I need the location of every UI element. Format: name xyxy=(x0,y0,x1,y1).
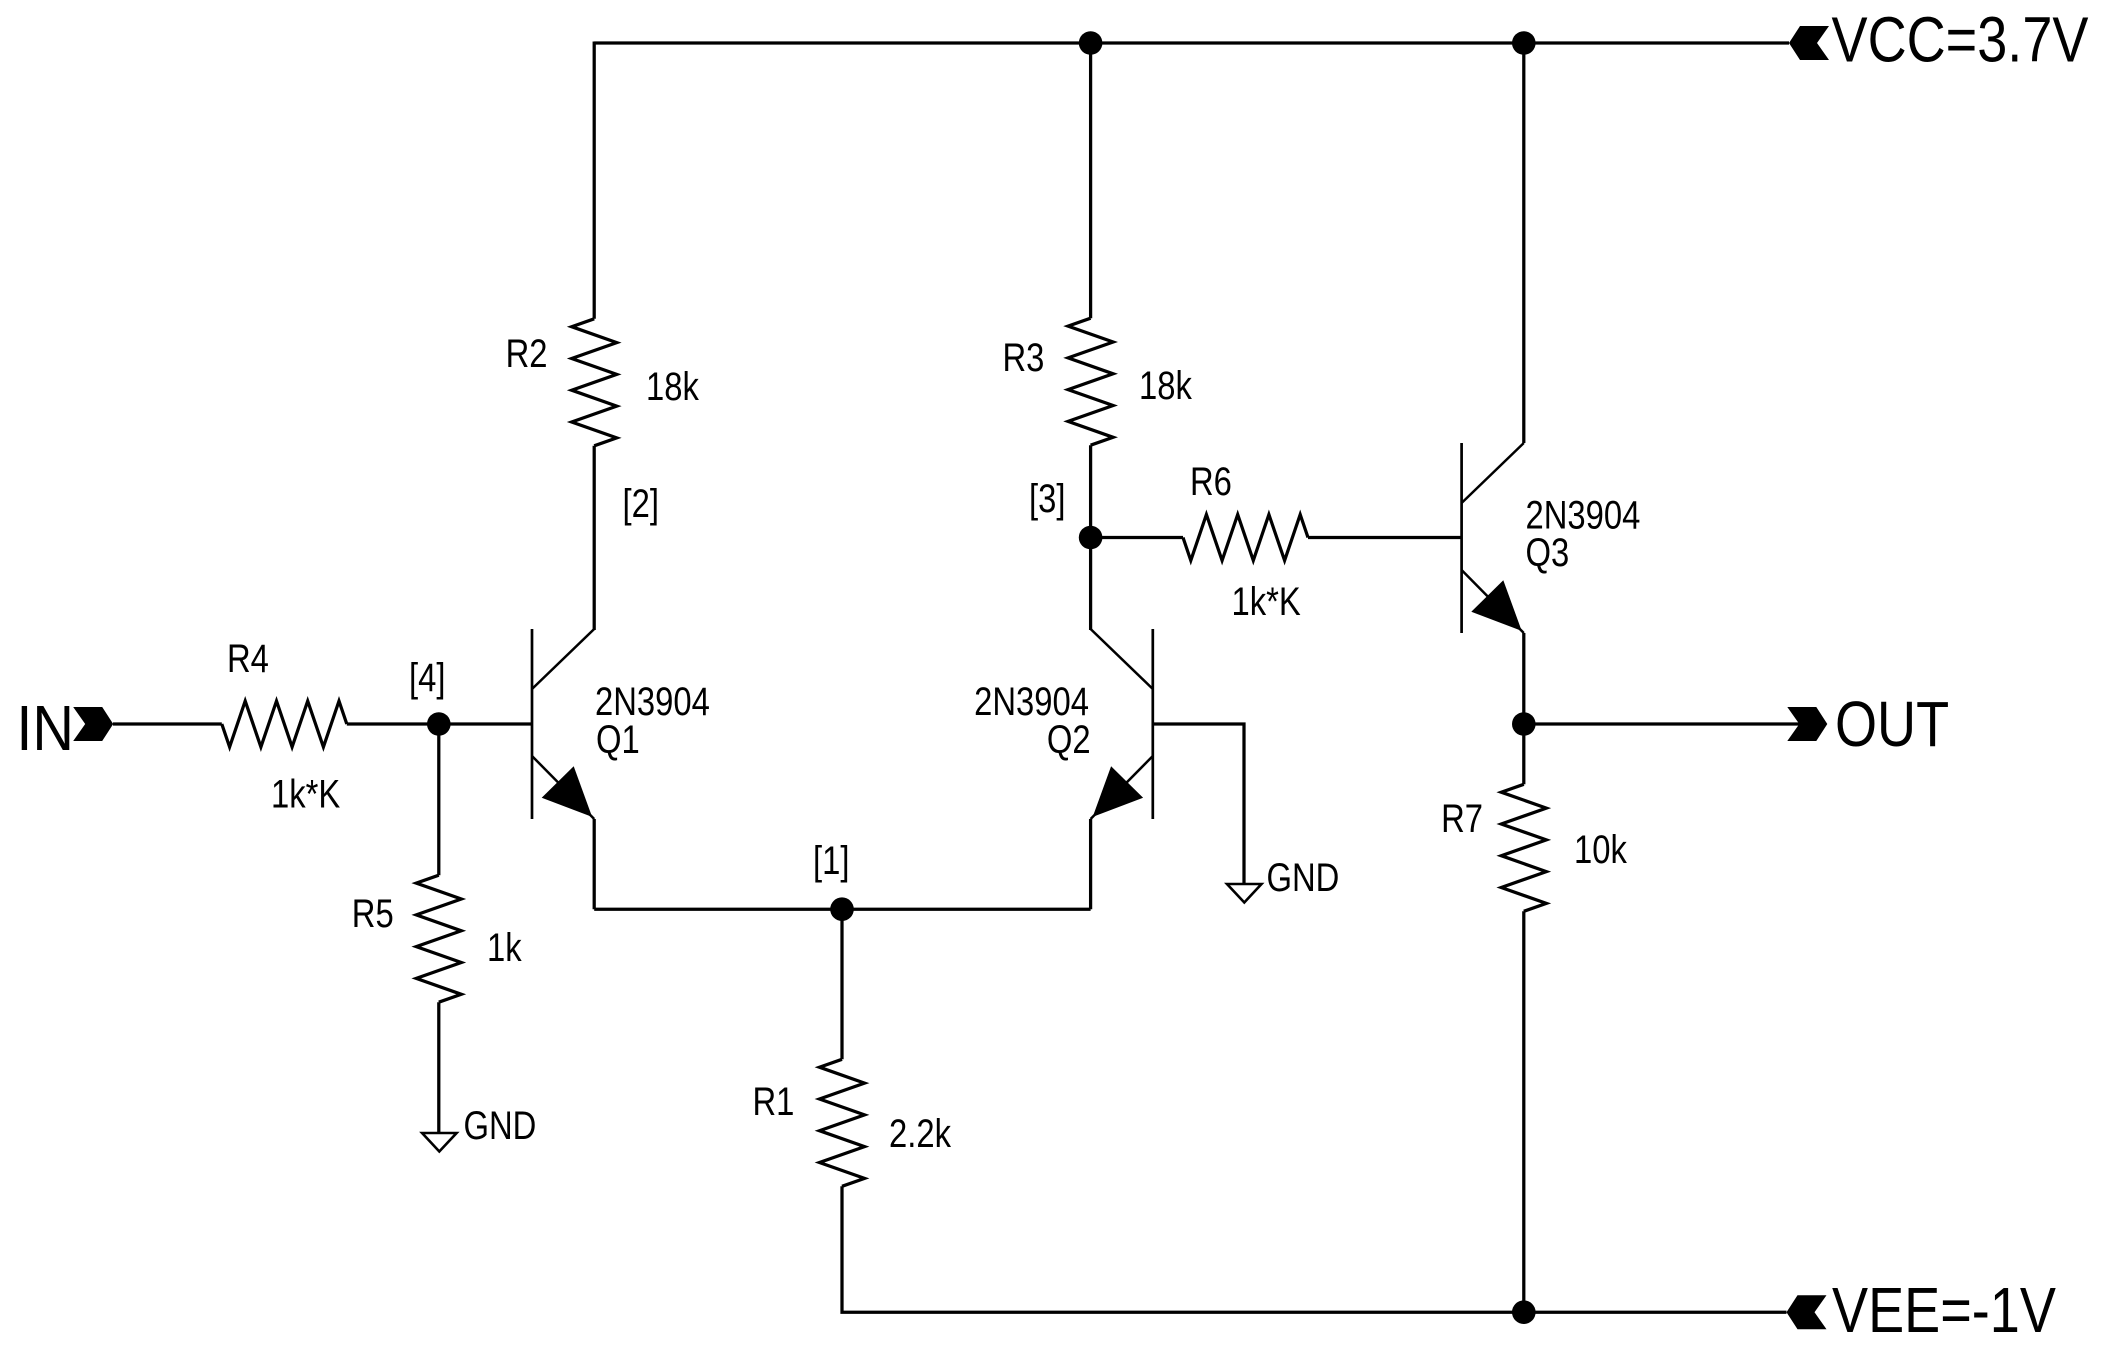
svg-text:1k*K: 1k*K xyxy=(271,771,340,816)
svg-text:Q1: Q1 xyxy=(596,717,640,762)
node junction on VCC rail at Q3 collector xyxy=(1512,31,1536,55)
transistor Q3 2N3904 xyxy=(1460,443,1463,633)
wire: R3 to node [3] xyxy=(1089,445,1092,537)
svg-text:VCC=3.7V: VCC=3.7V xyxy=(1832,3,2089,75)
wire: VCC rail down to R3 xyxy=(1089,42,1092,319)
resistor R6 xyxy=(1183,515,1308,561)
node junction on VEE rail xyxy=(1512,1300,1536,1324)
svg-text:2.2k: 2.2k xyxy=(889,1111,952,1156)
wire: R5 to ground xyxy=(437,1002,440,1138)
transistor Q2 2N3904 (mirrored) xyxy=(1151,629,1154,819)
svg-text:R7: R7 xyxy=(1441,796,1483,841)
terminal OUT xyxy=(1787,707,1827,741)
svg-text:VEE=-1V: VEE=-1V xyxy=(1832,1274,2056,1346)
ground symbol below R5 xyxy=(422,1133,457,1152)
resistor R2 xyxy=(572,319,617,446)
wire: OUT node down to R7 xyxy=(1522,724,1525,784)
wire: Q3 emitter down to OUT node xyxy=(1522,633,1525,724)
wire: Q2 base to ground xyxy=(1153,724,1244,889)
svg-text:1k: 1k xyxy=(487,925,522,970)
svg-text:GND: GND xyxy=(464,1103,537,1148)
svg-text:Q3: Q3 xyxy=(1526,530,1570,575)
resistor R4 xyxy=(222,701,347,747)
transistor Q1 2N3904 xyxy=(531,629,534,819)
svg-text:Q2: Q2 xyxy=(1047,717,1091,762)
svg-text:GND: GND xyxy=(1267,855,1340,900)
power tag VCC xyxy=(1789,26,1829,60)
wire: R6 to Q3 base xyxy=(1308,536,1462,539)
svg-text:R5: R5 xyxy=(352,891,394,936)
wire: node [1] rail xyxy=(594,908,1090,911)
svg-text:OUT: OUT xyxy=(1835,688,1949,760)
resistor R3 xyxy=(1068,318,1113,445)
wire: Q1 emitter down to node [1] rail xyxy=(593,819,596,909)
svg-text:R4: R4 xyxy=(227,636,269,681)
resistor R1 xyxy=(820,1059,865,1186)
wire: node [3] down to Q2 collector xyxy=(1089,538,1092,631)
wire: node [1] down to R1 xyxy=(840,909,843,1059)
svg-text:R6: R6 xyxy=(1190,459,1232,504)
wire: node [3] to R6 xyxy=(1091,536,1183,539)
svg-text:18k: 18k xyxy=(646,364,700,409)
wire: VCC top rail xyxy=(594,41,1789,44)
svg-text:1k*K: 1k*K xyxy=(1232,579,1301,624)
wire: R7 down to VEE rail xyxy=(1522,911,1525,1312)
wire: OUT node to terminal xyxy=(1524,722,1801,725)
resistor R5 xyxy=(416,875,461,1002)
svg-text:10k: 10k xyxy=(1574,827,1628,872)
svg-text:R2: R2 xyxy=(506,331,548,376)
svg-text:IN: IN xyxy=(16,692,74,763)
node junction on VCC rail at R3 branch xyxy=(1079,31,1103,55)
wire: node [4] down to R5 xyxy=(437,724,440,875)
wire: R2 to Q1 collector, node [2] xyxy=(593,446,596,630)
svg-text:18k: 18k xyxy=(1139,363,1193,408)
svg-text:[3]: [3] xyxy=(1029,476,1065,521)
ground symbol at Q2 base xyxy=(1227,884,1262,903)
svg-text:[1]: [1] xyxy=(813,838,849,883)
node [4] junction xyxy=(427,712,451,736)
wire: VCC rail down to R2 xyxy=(593,42,596,319)
svg-text:[2]: [2] xyxy=(623,481,659,526)
svg-text:[4]: [4] xyxy=(409,655,445,700)
wire: R4 to node [4] to Q1 base xyxy=(347,722,532,725)
svg-text:R3: R3 xyxy=(1002,335,1044,380)
resistor R7 xyxy=(1501,784,1546,911)
wire: IN to R4 xyxy=(113,722,222,725)
wire: Q3 collector up to VCC rail xyxy=(1522,42,1525,444)
wire: Q2 emitter down to node [1] rail xyxy=(1089,819,1092,909)
node [1] junction xyxy=(830,897,854,921)
svg-text:R1: R1 xyxy=(752,1079,794,1124)
node [3] junction xyxy=(1079,526,1103,550)
power tag VEE xyxy=(1787,1295,1827,1329)
wire: R1 down to VEE rail xyxy=(842,1186,1787,1312)
node junction at OUT xyxy=(1512,712,1536,736)
